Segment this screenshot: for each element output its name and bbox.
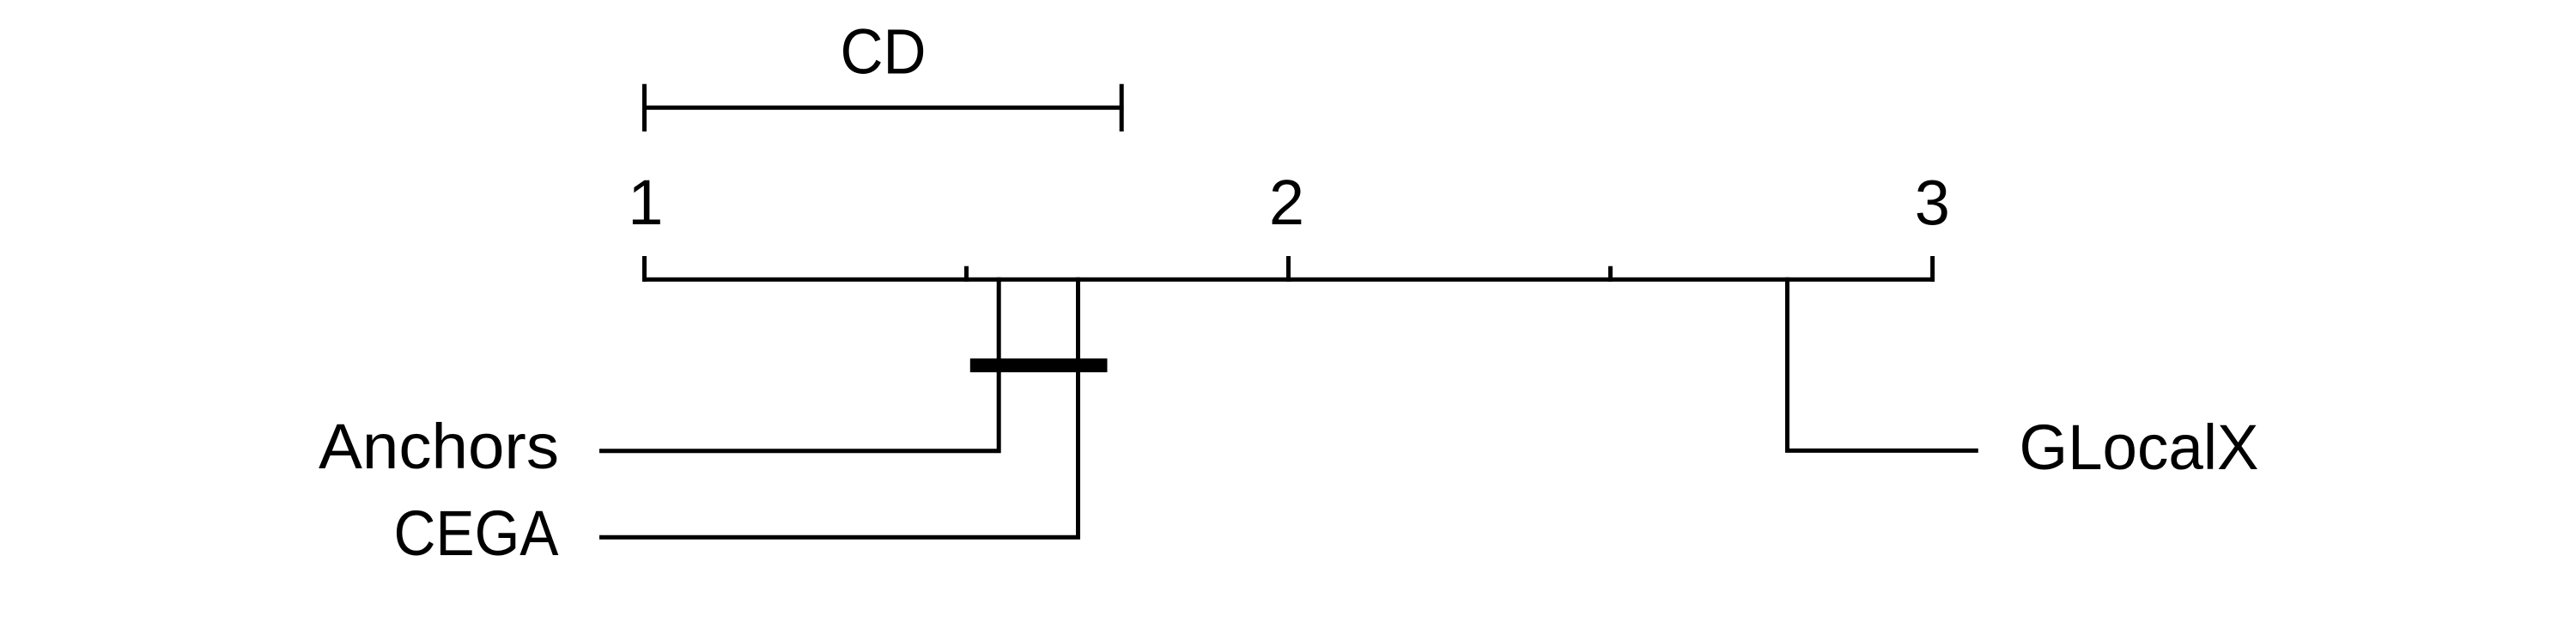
CEGA connector line — [599, 278, 1078, 538]
axis minor tick 1.5 — [964, 266, 969, 282]
axis minor tick 2.5 — [1608, 266, 1613, 282]
svg-text:2: 2 — [1269, 167, 1304, 238]
svg-text:3: 3 — [1915, 168, 1950, 239]
svg-text:Anchors: Anchors — [319, 411, 559, 482]
CD interval left tick — [642, 84, 647, 131]
svg-text:1: 1 — [628, 167, 663, 238]
axis major tick 2 — [1286, 256, 1291, 282]
Anchors connector line — [599, 278, 999, 451]
svg-text:CD: CD — [841, 16, 927, 88]
CD interval bar — [642, 106, 1124, 110]
axis line — [642, 278, 1935, 282]
axis major tick 3 — [1930, 256, 1935, 282]
GLocalX connector line — [1788, 278, 1978, 451]
svg-text:CEGA: CEGA — [394, 498, 560, 569]
clique significance bar — [970, 358, 1108, 372]
axis major tick 1 — [642, 256, 647, 282]
svg-text:GLocalX: GLocalX — [2020, 412, 2259, 483]
CD interval right tick — [1120, 84, 1124, 131]
